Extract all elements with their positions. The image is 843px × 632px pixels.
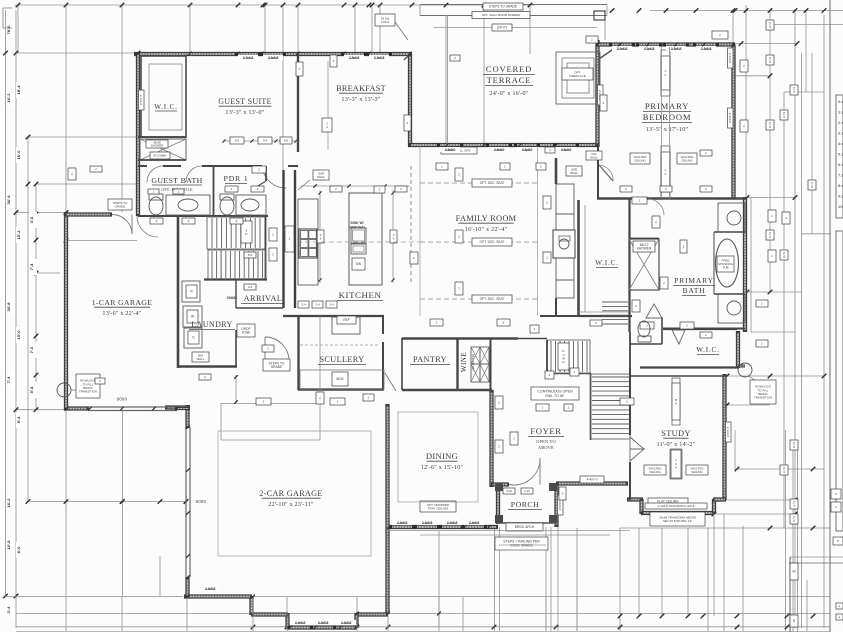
svg-text:BREAKFAST: BREAKFAST	[336, 84, 386, 93]
svg-text:12'-6" x 15'-10": 12'-6" x 15'-10"	[421, 464, 464, 471]
svg-text:13'-5" x 17'-10": 13'-5" x 17'-10"	[646, 126, 689, 133]
fixture: guest bath vanity	[166, 195, 210, 215]
wall: stair west	[546, 340, 548, 374]
wall: study east exterior	[722, 374, 726, 500]
svg-text:RAIL TO 8F.: RAIL TO 8F.	[545, 394, 565, 398]
svg-text:1-CAR GARAGE: 1-CAR GARAGE	[92, 298, 153, 307]
svg-text:3068: 3068	[227, 295, 237, 300]
window labels dining south	[392, 520, 412, 525]
svg-text:SHOWER: SHOWER	[151, 144, 164, 148]
wall: 1-car garage west	[64, 212, 68, 410]
right strip extra vertical	[750, 197, 752, 332]
arrival bottom dim boxes	[298, 301, 309, 308]
window labels bottom flex	[290, 620, 310, 625]
wall: guest suite - breakfast divider	[297, 54, 299, 152]
window labels bedroom east rotated	[728, 48, 734, 68]
wall: kitchen-scullery south	[283, 315, 384, 317]
top dim ticks	[16, 3, 21, 8]
wall: front door wall segment	[491, 482, 509, 486]
svg-text:BRICK ARCH: BRICK ARCH	[515, 525, 535, 529]
svg-text:WALL: WALL	[196, 357, 204, 361]
label: 18 sq cols	[375, 14, 395, 26]
svg-text:2-3x6-8: 2-3x6-8	[374, 56, 385, 60]
wall: stair south	[204, 278, 267, 280]
svg-text:GRADE: GRADE	[271, 365, 282, 369]
wall: laundry east partial	[235, 330, 237, 367]
svg-text:5-0: 5-0	[235, 139, 240, 143]
svg-text:30'-8: 30'-8	[6, 302, 11, 312]
stairs: main flight 2	[208, 250, 266, 279]
wall: bedroom north exterior	[596, 42, 736, 46]
svg-text:SINK W/: SINK W/	[350, 221, 363, 225]
wall: pdr east + diagonal	[265, 166, 267, 181]
ticks on walls row y53	[136, 52, 140, 56]
svg-text:W: W	[191, 315, 194, 319]
svg-text:6.s: 6.s	[838, 162, 843, 167]
svg-text:FIREPLACE: FIREPLACE	[569, 74, 586, 78]
svg-text:4: 4	[793, 445, 795, 449]
fixture: free standing tub	[716, 239, 739, 287]
svg-text:6-0: 6-0	[284, 139, 289, 143]
svg-text:16'-10" x 22'-4": 16'-10" x 22'-4"	[465, 226, 508, 233]
wall: primary bath east exterior	[743, 197, 747, 332]
wall: garage front jog	[165, 405, 190, 409]
svg-text:GRADE: GRADE	[115, 204, 126, 208]
family room dashed ceiling lines	[420, 182, 537, 184]
wall: dining-garage east shared	[385, 404, 389, 614]
svg-text:OPT. DSC. SEAT: OPT. DSC. SEAT	[480, 181, 505, 185]
ticks garage door rows	[64, 407, 68, 411]
svg-text:24'-0" x 16'-0": 24'-0" x 16'-0"	[489, 90, 528, 97]
stairs: main flight 1	[207, 217, 265, 249]
right lower extension vertical	[713, 514, 715, 616]
porch steps lines	[499, 544, 546, 546]
door scullery-dining diagonal	[385, 373, 396, 391]
svg-text:2-3x6-8: 2-3x6-8	[268, 56, 279, 60]
svg-text:36'-4: 36'-4	[6, 195, 11, 205]
wall: 2-car garage west lower	[185, 577, 189, 598]
ticks row y145 family north	[408, 143, 412, 147]
svg-text:CEILING: CEILING	[691, 470, 703, 474]
svg-text:WALL: WALL	[590, 155, 598, 159]
label: 2hr wall kitchen	[313, 170, 329, 180]
wall: terrace pier block	[594, 11, 605, 20]
svg-text:OPT. WALL DOOR SCREEN: OPT. WALL DOOR SCREEN	[482, 13, 521, 17]
wall: study bay window south	[627, 497, 643, 501]
svg-text:30 CUBBY: 30 CUBBY	[153, 154, 167, 158]
fixture: study closet strip	[672, 378, 680, 425]
wall: scullery south	[298, 388, 384, 391]
wall: pantry east	[456, 338, 458, 390]
svg-text:2-3x6-8: 2-3x6-8	[728, 113, 732, 124]
svg-text:2-4x6-8: 2-4x6-8	[318, 621, 329, 625]
patio outline below scullery	[221, 403, 320, 405]
wall: terrace east / bedroom west exterior	[595, 40, 599, 147]
fixture: pdr toilet	[220, 197, 234, 215]
kitchen east counter dashed	[410, 166, 412, 285]
svg-text:2-4x6-8: 2-4x6-8	[447, 521, 458, 525]
wall: guest wing west exterior	[136, 52, 140, 216]
svg-text:4: 4	[783, 255, 785, 259]
label: steps to grade (arrival)	[263, 359, 290, 371]
label: vaulted ceiling study pair	[644, 465, 666, 475]
wall: study north / hall south	[630, 375, 727, 377]
svg-text:0.s: 0.s	[838, 99, 843, 104]
label: dw wall laundry	[192, 352, 209, 362]
fixture: bath vanity north	[718, 203, 745, 232]
wall: guest bath-pdr divider	[213, 167, 215, 216]
door arc garage entry	[112, 215, 132, 235]
terrace 24-0 dim line	[434, 27, 597, 29]
fixture: wine racks	[471, 347, 480, 364]
svg-text:GUEST SUITE: GUEST SUITE	[218, 97, 272, 106]
svg-text:CEILING: CEILING	[634, 158, 646, 162]
wall: breakfast east exterior	[408, 54, 412, 145]
fixture: bedroom closet strip upper	[661, 50, 670, 96]
label: risers box	[241, 221, 252, 243]
svg-text:SCULLERY: SCULLERY	[319, 355, 364, 364]
dim line: top main horizontal	[15, 4, 535, 6]
wall: laundry south	[178, 365, 237, 368]
label: steps to grade top	[483, 3, 523, 10]
svg-text:18'-4: 18'-4	[16, 85, 21, 95]
wall: bath vanity nook walls	[714, 231, 745, 233]
fixture: kitchen west counter	[298, 199, 318, 285]
window label terrace east rotated	[598, 85, 604, 105]
stair dim boxes	[244, 252, 256, 258]
stair treads north of wic	[602, 301, 628, 303]
label: rowlock west	[76, 374, 100, 398]
svg-text:4: 4	[793, 90, 795, 94]
label: vaulted ceiling bedroom pair	[630, 153, 650, 164]
fixture: wc toilet	[638, 321, 650, 337]
label: dw wall family	[566, 166, 582, 176]
door: garage to arrival	[137, 216, 158, 237]
wall: bath shower north	[629, 238, 659, 240]
front door arc	[509, 460, 540, 485]
media wall column	[555, 158, 558, 184]
wall: porch west	[496, 486, 500, 524]
left dim ticks	[3, 51, 8, 56]
wall: wic primary west	[577, 200, 580, 316]
svg-text:3-10: 3-10	[506, 489, 512, 493]
svg-text:3.s: 3.s	[838, 131, 843, 136]
wall: kitchen west double	[282, 170, 284, 308]
wall: family room north / terrace south	[408, 143, 599, 147]
svg-text:5.s: 5.s	[838, 152, 843, 157]
svg-text:KITCHEN: KITCHEN	[339, 290, 382, 300]
svg-text:W.I.C.: W.I.C.	[595, 259, 619, 267]
door arc bath hall	[648, 199, 664, 215]
svg-text:2-3x6-8: 2-3x6-8	[728, 53, 732, 64]
svg-text:16'-2: 16'-2	[6, 498, 11, 508]
label: flat ceiling strip study	[670, 449, 682, 479]
wall: foyer-stair north	[518, 338, 547, 340]
svg-text:BATH: BATH	[682, 286, 705, 295]
svg-text:2-4x6-8: 2-4x6-8	[205, 587, 216, 591]
fixture: scullery counter + wok	[300, 370, 384, 389]
wall: study wic north	[663, 328, 737, 330]
svg-text:15'-0: 15'-0	[16, 330, 21, 340]
svg-text:ZONE: ZONE	[242, 331, 251, 335]
svg-text:2-3x6-8: 2-3x6-8	[726, 427, 730, 438]
wall: bedroom NW diagonal	[598, 45, 621, 61]
svg-text:2-4x6-8: 2-4x6-8	[341, 621, 352, 625]
terrace screen wall top lines	[420, 4, 607, 6]
svg-text:WALL: WALL	[570, 171, 578, 175]
wall: bedroom south	[597, 197, 745, 200]
wall: shower bottom	[138, 159, 186, 161]
svg-text:2-4x6-8: 2-4x6-8	[397, 521, 408, 525]
svg-text:CODE GRADE: CODE GRADE	[510, 544, 534, 548]
wall: guest wic outer	[141, 56, 186, 137]
bottom margin crossing verticals	[65, 597, 67, 631]
right tiny dim boxes	[766, 20, 774, 30]
extra dim ticks along top dim	[236, 3, 241, 8]
wall: study wic south	[640, 366, 739, 368]
svg-text:CEILING: CEILING	[681, 158, 693, 162]
wall: 2-car garage west upper	[185, 405, 189, 428]
dining tray ceiling light rect	[398, 412, 478, 502]
svg-text:3-4: 3-4	[263, 139, 268, 143]
svg-text:2-4x6-8: 2-4x6-8	[422, 521, 433, 525]
wall: foyer west	[489, 390, 493, 487]
svg-text:4: 4	[793, 504, 795, 508]
wall: scullery west	[297, 316, 299, 390]
wall: pantry-wine south	[402, 389, 492, 391]
svg-text:3'-4: 3'-4	[6, 606, 11, 614]
wall: bedroom east exterior	[731, 45, 735, 200]
dashed: scullery counter dash	[300, 344, 380, 346]
wall: 1-car garage south	[64, 406, 89, 410]
svg-text:2-3x6-8: 2-3x6-8	[701, 47, 712, 51]
right dim verticals	[783, 92, 785, 528]
svg-text:7.s: 7.s	[838, 173, 843, 178]
svg-text:3-10: 3-10	[524, 489, 530, 493]
svg-text:4: 4	[769, 125, 771, 129]
label: dw wall bedroom top	[586, 151, 602, 160]
window label guest west rotated	[139, 90, 145, 110]
right margin title block strip	[836, 95, 843, 218]
svg-text:DW: DW	[356, 262, 361, 266]
guest wic inner shelf	[149, 64, 182, 130]
svg-text:2-4: 2-4	[329, 303, 334, 307]
kitchen dim line top	[300, 185, 410, 187]
svg-text:7'-4: 7'-4	[6, 376, 11, 384]
svg-text:15'-2: 15'-2	[16, 230, 21, 240]
garage ceiling light rect	[218, 430, 371, 432]
wall: wic primary south / hall	[578, 315, 632, 317]
wall: porch south sill	[497, 522, 557, 524]
svg-text:4: 4	[783, 115, 785, 119]
ticks on site lines	[185, 595, 189, 599]
ticks bottom steps windows	[288, 626, 292, 630]
wall: rowlock jog	[738, 365, 745, 368]
svg-text:W.I.C.: W.I.C.	[696, 346, 720, 354]
left dim verticals	[5, 10, 7, 597]
svg-text:2-3x6-8: 2-3x6-8	[243, 56, 254, 60]
wall: front wall between porch and study	[556, 481, 628, 485]
fixture: bath vanity south	[718, 294, 745, 323]
wall: garage SE step bottom	[356, 612, 388, 616]
wall: pantry west	[401, 338, 403, 390]
svg-text:(BUTLER): (BUTLER)	[471, 353, 475, 370]
svg-text:2-8x8-0: 2-8x8-0	[561, 148, 572, 152]
wall: dining south exterior	[388, 525, 498, 529]
door triangle to study wic	[672, 330, 685, 344]
family-kitchen boundary light	[419, 145, 421, 316]
svg-text:2-4x6-8: 2-4x6-8	[469, 521, 480, 525]
svg-text:4.s: 4.s	[838, 141, 843, 146]
window label garage south	[200, 586, 220, 591]
svg-text:3-4: 3-4	[248, 285, 253, 289]
svg-text:4: 4	[793, 519, 795, 523]
svg-text:K: K	[675, 401, 677, 405]
svg-text:2-CAR GARAGE: 2-CAR GARAGE	[259, 489, 322, 498]
svg-text:FOYER: FOYER	[530, 426, 561, 436]
left margin top bracket	[3, 7, 12, 9]
svg-text:b: b	[837, 539, 839, 543]
label: steps railing code	[495, 537, 548, 550]
fixture: island sink	[351, 228, 366, 243]
fixture: laundry appliances	[182, 281, 200, 302]
breakfast NE diagonal	[404, 54, 410, 60]
wic primary inner shelves	[584, 205, 586, 312]
svg-text:PANTRY: PANTRY	[413, 355, 447, 364]
svg-text:REF: REF	[343, 318, 349, 322]
svg-text:4: 4	[769, 25, 771, 29]
scattered small dim boxes	[404, 115, 411, 131]
svg-text:OPEN TO: OPEN TO	[536, 439, 556, 444]
bottom dim ticks	[64, 499, 69, 504]
wc pocket walls	[661, 317, 663, 344]
label: steps to grade (garage top)	[108, 199, 132, 210]
label: grand sliding doors	[441, 147, 477, 154]
svg-text:N: N	[562, 360, 564, 364]
svg-text:ABOVE: ABOVE	[538, 445, 554, 450]
svg-text:TRANSITION: TRANSITION	[754, 396, 772, 400]
fixture: island dw box	[352, 258, 365, 270]
svg-text:SHOWER: SHOWER	[637, 247, 652, 251]
svg-text:DISPOSAL: DISPOSAL	[348, 226, 365, 230]
svg-text:ARRIVAL: ARRIVAL	[244, 294, 283, 303]
svg-text:PRIMARY: PRIMARY	[674, 276, 714, 285]
dim vertical near mud	[235, 375, 237, 403]
svg-text:5-0: 5-0	[248, 253, 253, 257]
svg-text:13'-6" x 22'-4": 13'-6" x 22'-4"	[102, 310, 141, 317]
wall: guest wing north exterior	[134, 52, 412, 56]
svg-text:WALL: WALL	[317, 175, 325, 179]
bottom extension verticals	[65, 410, 67, 596]
fixture: scullery fridge	[332, 317, 360, 334]
svg-text:CEILING: CEILING	[649, 470, 661, 474]
bedroom closet divider light lines	[661, 47, 663, 198]
right dim ticks	[739, 41, 744, 46]
svg-text:13'-3" x 13'-3": 13'-3" x 13'-3"	[341, 96, 380, 103]
svg-text:4: 4	[811, 185, 813, 189]
door: study double doors	[630, 437, 644, 461]
svg-text:2-3x6-8: 2-3x6-8	[671, 47, 682, 51]
wall: family south partial	[555, 298, 557, 316]
svg-text:8'-0: 8'-0	[16, 546, 21, 554]
svg-text:2.s: 2.s	[838, 120, 843, 125]
label: flat ceiling study bay	[648, 498, 688, 505]
svg-text:COLS: COLS	[381, 20, 389, 24]
svg-text:4: 4	[783, 470, 785, 474]
svg-text:LAUNDRY: LAUNDRY	[191, 320, 232, 329]
fixture: guest bath toilet	[149, 197, 163, 215]
wall: wine east	[490, 338, 492, 390]
title block right small boxes	[831, 489, 841, 499]
svg-text:78'-0: 78'-0	[6, 25, 11, 35]
svg-text:4: 4	[769, 235, 771, 239]
svg-text:9090: 9090	[117, 397, 128, 402]
svg-text:TRANSITION: TRANSITION	[79, 390, 97, 394]
wall: scullery east	[382, 316, 384, 334]
door chevron wc	[646, 304, 662, 318]
label: opt dropped tray ceiling	[420, 501, 456, 512]
bottom long site lines	[5, 596, 183, 598]
dim line: top right horizontal	[650, 10, 843, 12]
door arc guest bath entry	[147, 166, 163, 182]
svg-text:GUEST BATH: GUEST BATH	[151, 176, 202, 185]
label: continuous open rail	[531, 387, 579, 400]
wall: laundry west / 1-car east	[177, 215, 180, 368]
svg-text:9'-4: 9'-4	[16, 416, 21, 424]
svg-text:BEDROOM: BEDROOM	[643, 112, 692, 122]
svg-text:WOK: WOK	[336, 377, 344, 381]
fixture: terrace fireplace	[556, 52, 600, 104]
svg-text:22'-10" x 23'-11": 22'-10" x 23'-11"	[268, 501, 314, 508]
fixture: kitchen range grid	[299, 229, 317, 258]
svg-text:10'-8: 10'-8	[6, 540, 11, 550]
fixture: pdr vanity	[236, 195, 266, 215]
garage door 2-car west	[185, 427, 187, 577]
label: brick arch porch	[506, 523, 543, 531]
fixture: primary bath shower	[629, 239, 659, 290]
fixture: guest shower	[140, 139, 186, 160]
svg-text:9090: 9090	[196, 499, 207, 504]
label: stair down box	[558, 343, 569, 370]
label: transoms above study	[650, 512, 705, 526]
kitchen interior dim verticals	[319, 190, 321, 283]
svg-text:SET AT 8-08 ABV. FF.: SET AT 8-08 ABV. FF.	[663, 519, 692, 523]
svg-text:FAMILY ROOM: FAMILY ROOM	[456, 214, 517, 223]
stairs: foyer lower flight treads	[592, 376, 630, 378]
front walk lines	[388, 530, 630, 532]
label: drop zone	[237, 324, 255, 337]
left dim horizontals	[17, 52, 138, 54]
label: 4-4x7-0 front	[580, 476, 604, 483]
svg-text:PRIMARY: PRIMARY	[645, 101, 689, 111]
svg-text:TUB: TUB	[723, 266, 729, 270]
svg-text:4-4x7-0: 4-4x7-0	[587, 478, 598, 482]
svg-text:W.I.C.: W.I.C.	[154, 103, 178, 111]
svg-text:[24'-0"]: [24'-0"]	[497, 26, 507, 30]
label: rowlock east	[750, 380, 776, 404]
svg-text:13'-3" x 13'-0": 13'-3" x 13'-0"	[225, 109, 264, 116]
breakfast center light line	[327, 61, 329, 150]
svg-text:2-3x6-8: 2-3x6-8	[349, 56, 360, 60]
svg-text:9.s: 9.s	[838, 194, 843, 199]
svg-text:OPT. DSC. SEAT: OPT. DSC. SEAT	[480, 297, 505, 301]
svg-text:OPT. DSO. SEAT: OPT. DSO. SEAT	[480, 240, 505, 244]
arrival walls	[235, 279, 237, 308]
svg-text:3'-6: 3'-6	[29, 216, 34, 224]
wall: bedroom west interior lower	[597, 147, 599, 199]
wall: bath south / hall	[663, 328, 745, 330]
svg-text:2-4: 2-4	[301, 303, 306, 307]
